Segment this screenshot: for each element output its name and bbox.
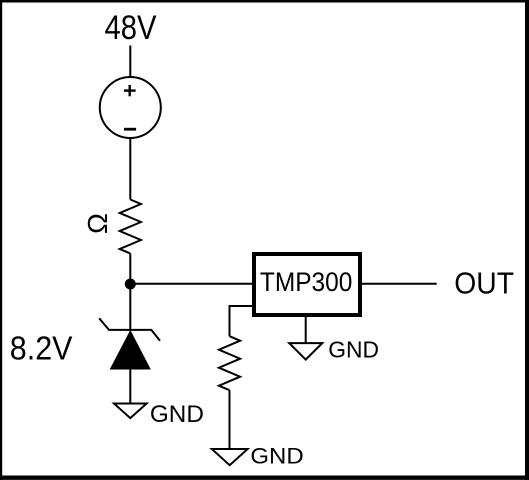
svg-text:48V: 48V [105, 9, 157, 47]
svg-text:GND: GND [328, 336, 379, 362]
ground symbol G2 [212, 449, 248, 465]
node junction dot [125, 279, 136, 290]
svg-text:OUT: OUT [454, 267, 514, 301]
minus sign [124, 128, 136, 131]
IC U1 TMP300 box [254, 254, 360, 315]
wire from node to TMP300 [130, 283, 252, 285]
resistor R1 [120, 200, 141, 254]
wire from 48V to voltage source [129, 46, 131, 78]
wire jog from TMP300 left pin to resistor R2 [230, 306, 253, 336]
zener diode D1 [99, 318, 160, 369]
svg-text:GND: GND [250, 444, 303, 469]
ground symbol G3 [289, 343, 322, 360]
plus sign [124, 85, 136, 96]
svg-text:TMP300: TMP300 [260, 267, 353, 297]
svg-text:8.2V: 8.2V [10, 330, 73, 367]
ground symbol G1 [114, 404, 147, 419]
svg-text:GND: GND [150, 401, 204, 428]
wire from TMP300 bottom pin to ground [305, 317, 307, 343]
wire from voltage source to resistor R1 [129, 138, 131, 200]
voltage source V1 [100, 77, 161, 138]
wire from TMP300 to OUT [362, 283, 437, 285]
resistor R2 [219, 336, 240, 390]
wire from R1 through node to zener [129, 254, 131, 332]
wire from zener to ground [129, 369, 131, 404]
wire from R2 to ground [229, 390, 231, 449]
svg-text:Ω: Ω [82, 213, 113, 234]
